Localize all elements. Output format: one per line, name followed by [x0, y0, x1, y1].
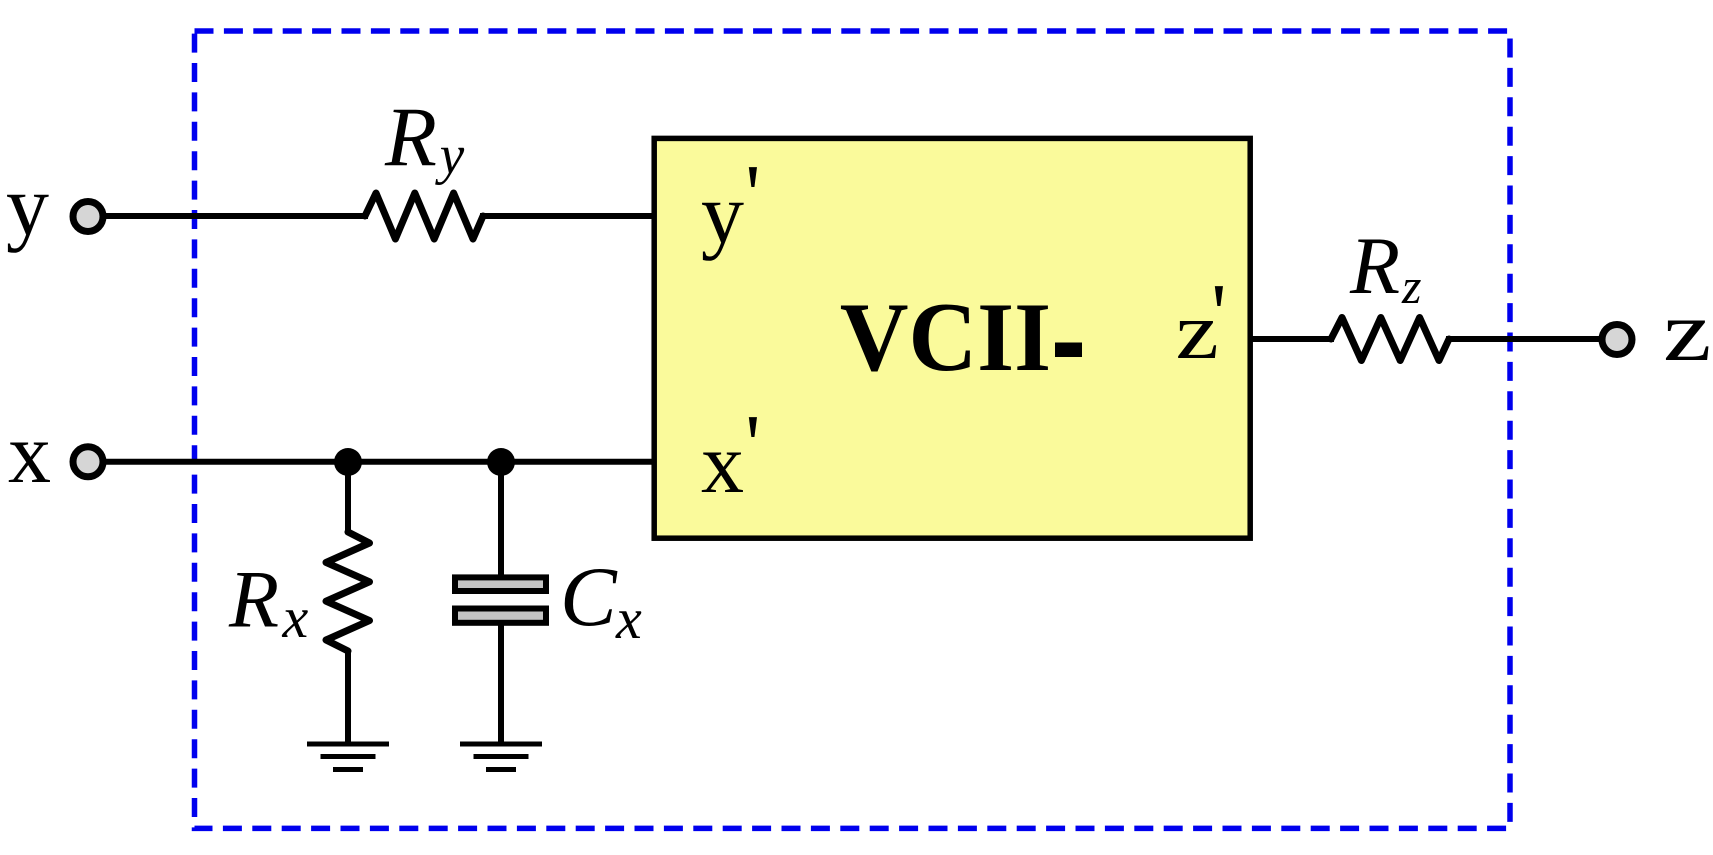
- VCII- block (yellow box) U1: [654, 138, 1250, 538]
- svg-text:R: R: [228, 553, 279, 644]
- ground (Cx): [460, 744, 542, 770]
- capacitor Cx plate 1: [455, 577, 546, 591]
- resistor Rx: [326, 532, 370, 651]
- terminal y: [73, 202, 103, 232]
- svg-text:y: y: [6, 157, 49, 253]
- wire: [345, 650, 351, 743]
- wire: Cx branch vertical top: [498, 462, 504, 578]
- wire: resistor Rz to z terminal: [1446, 336, 1605, 342]
- resistor Ry: [365, 193, 483, 239]
- svg-text:z: z: [1401, 258, 1421, 314]
- dashed macromodel boundary box: [195, 31, 1511, 828]
- svg-text:': ': [745, 397, 760, 491]
- svg-text:x: x: [282, 585, 309, 650]
- svg-text:y: y: [701, 165, 744, 261]
- svg-text:R: R: [1349, 220, 1400, 311]
- svg-text:y: y: [435, 124, 465, 185]
- svg-text:': ': [745, 147, 760, 241]
- wire: Cx branch vertical bottom: [498, 625, 504, 743]
- svg-text:z: z: [1663, 284, 1711, 379]
- node: junction dot at Rx branch: [334, 448, 362, 476]
- wire: x terminal to x' port: [100, 459, 654, 465]
- terminal z: [1602, 325, 1632, 355]
- node: junction dot at Cx branch: [487, 448, 515, 476]
- capacitor Cx plate 2: [455, 609, 546, 623]
- svg-text:C: C: [560, 550, 618, 644]
- label z: [1663, 284, 1711, 379]
- wire: y terminal to y' port: [100, 213, 368, 219]
- port label z': [1176, 287, 1219, 376]
- svg-text:x: x: [701, 415, 744, 511]
- svg-text:x: x: [8, 405, 51, 501]
- svg-text:x: x: [615, 586, 642, 651]
- svg-text:R: R: [384, 91, 437, 185]
- svg-text:': ': [1211, 266, 1226, 360]
- terminal x: [73, 447, 103, 477]
- wire: [480, 213, 654, 219]
- label VCII-: [840, 282, 1051, 391]
- resistor Rz: [1331, 318, 1449, 361]
- svg-text:VCII: VCII: [840, 282, 1051, 391]
- wire: z' port to resistor Rz: [1250, 336, 1334, 342]
- wire: Rx branch vertical: [345, 462, 351, 534]
- ground (Rx): [307, 744, 389, 770]
